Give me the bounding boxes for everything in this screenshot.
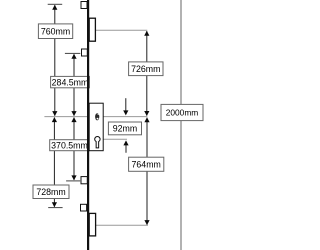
wire: 2000mm overall height reference line bbox=[180, 0, 182, 250]
svg-text:92mm: 92mm bbox=[113, 124, 137, 134]
label 92mm bbox=[108, 122, 141, 135]
label 370.5mm bbox=[50, 140, 90, 151]
wire: spindle hub centerline (gray, y=116.6) bbox=[44, 116, 147, 118]
spindle hub bbox=[95, 113, 99, 120]
wire: top hook centerline (gray, y=30) bbox=[95, 29, 147, 31]
top hook housing bbox=[89, 18, 95, 41]
dimension 284.5mm shaft bbox=[71, 54, 76, 116]
node: top roller tick bbox=[65, 52, 80, 54]
dimension 764mm shaft bbox=[144, 117, 149, 225]
svg-text:728mm: 728mm bbox=[36, 187, 65, 197]
svg-text:284.5mm: 284.5mm bbox=[52, 77, 89, 87]
label 726mm bbox=[129, 62, 163, 76]
bottom roller cam block bbox=[81, 204, 87, 211]
dimension 760mm shaft bbox=[52, 5, 57, 116]
node: bottom roller tick bbox=[48, 207, 62, 209]
svg-text:760mm: 760mm bbox=[41, 27, 70, 37]
label 284.5mm bbox=[51, 76, 90, 87]
node: top extent tick bbox=[48, 3, 63, 5]
dimension 92mm upper arrow bbox=[123, 98, 128, 115]
svg-text:370.5mm: 370.5mm bbox=[51, 140, 88, 150]
top roller cam block bbox=[82, 49, 88, 56]
faceplate strip bbox=[87, 0, 89, 250]
label 764mm bbox=[129, 157, 164, 171]
wire: bottom hook centerline (gray, y=225.2) bbox=[96, 224, 148, 226]
dimension 92mm lower arrow bbox=[123, 140, 128, 152]
dimension 370.5mm shaft bbox=[71, 117, 76, 180]
svg-text:764mm: 764mm bbox=[132, 160, 161, 170]
top anti-lift pin block bbox=[81, 2, 87, 9]
wire: cylinder centerline (gray, y=139.3) bbox=[89, 138, 127, 140]
label 2000mm bbox=[161, 104, 203, 120]
dimension 726mm shaft bbox=[144, 31, 149, 116]
svg-text:726mm: 726mm bbox=[131, 64, 160, 74]
dimension 728mm shaft bbox=[52, 117, 57, 207]
bottom hook housing bbox=[89, 213, 95, 236]
label 760mm bbox=[38, 24, 72, 39]
svg-text:2000mm: 2000mm bbox=[166, 108, 199, 118]
euro cylinder keyhole bbox=[95, 137, 100, 148]
node: lower roller tick bbox=[66, 180, 80, 182]
central gearbox case bbox=[89, 103, 103, 151]
label 728mm bbox=[33, 185, 69, 199]
lower roller cam block bbox=[81, 177, 87, 184]
